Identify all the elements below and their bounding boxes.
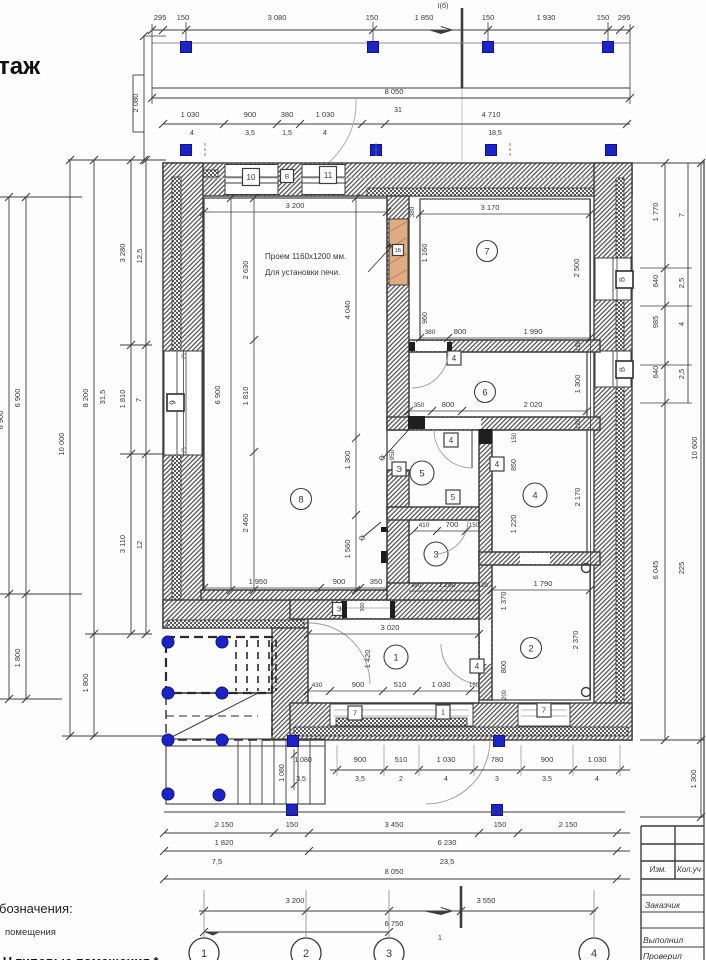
svg-text:3,5: 3,5 [542,776,552,783]
svg-text:2 150: 2 150 [559,820,578,829]
svg-text:10: 10 [247,173,256,182]
svg-text:1 810: 1 810 [241,387,250,406]
svg-text:410: 410 [419,522,430,529]
svg-text:1 990: 1 990 [524,327,543,336]
svg-text:3 550: 3 550 [477,896,496,905]
svg-text:В: В [618,367,627,372]
svg-text:3: 3 [386,948,392,960]
svg-text:1 560: 1 560 [343,540,352,559]
svg-text:150: 150 [366,13,379,22]
svg-text:1 030: 1 030 [432,680,451,689]
svg-text:31,5: 31,5 [98,390,107,405]
svg-text:4: 4 [532,490,537,501]
svg-text:850: 850 [511,459,518,471]
svg-text:7: 7 [542,706,546,715]
svg-text:150: 150 [482,13,495,22]
svg-text:7,5: 7,5 [212,857,222,866]
svg-text:1: 1 [201,948,207,960]
svg-text:Выполнил: Выполнил [643,935,683,945]
svg-text:1 800: 1 800 [13,649,22,668]
svg-text:510: 510 [395,755,408,764]
svg-text:1 770: 1 770 [651,203,660,222]
svg-text:1 370: 1 370 [499,592,508,611]
svg-text:9: 9 [169,400,178,405]
svg-text:4: 4 [190,130,194,137]
svg-text:1 030: 1 030 [437,755,456,764]
svg-text:1 820: 1 820 [215,838,234,847]
svg-text:В: В [285,173,289,180]
svg-text:2 630: 2 630 [241,261,250,280]
svg-text:3,5: 3,5 [355,776,365,783]
svg-text:18,5: 18,5 [488,130,502,137]
svg-text:5: 5 [419,468,424,479]
svg-text:150: 150 [177,13,190,22]
svg-text:4: 4 [444,776,448,783]
svg-text:6: 6 [482,387,487,398]
svg-text:бозначения:: бозначения: [0,901,73,916]
svg-text:1 300: 1 300 [573,375,582,394]
svg-text:2 150: 2 150 [215,820,234,829]
svg-text:1 810: 1 810 [118,390,127,409]
svg-text:1 080: 1 080 [279,764,286,782]
svg-text:4 040: 4 040 [343,301,352,320]
svg-text:6 045: 6 045 [651,561,660,580]
svg-text:150: 150 [469,683,480,689]
svg-text:1 030: 1 030 [316,110,335,119]
svg-text:12: 12 [135,541,144,549]
svg-text:3,5: 3,5 [245,130,255,137]
svg-text:3: 3 [433,549,438,560]
svg-text:2 080: 2 080 [131,94,140,113]
svg-text:6 900: 6 900 [0,411,5,430]
svg-text:4: 4 [323,130,327,137]
svg-text:150: 150 [512,432,518,443]
svg-text:780: 780 [491,755,504,764]
svg-text:1 260: 1 260 [438,582,456,589]
svg-text:2,5: 2,5 [677,278,686,288]
svg-text:1 080: 1 080 [294,757,312,764]
svg-text:8 050: 8 050 [385,867,404,876]
svg-text:В: В [618,277,627,282]
svg-text:700: 700 [446,520,459,529]
svg-text:1 850: 1 850 [415,13,434,22]
svg-text:помещения: помещения [5,927,56,938]
svg-text:295: 295 [618,13,631,22]
svg-text:900: 900 [541,755,554,764]
svg-text:7: 7 [353,709,357,718]
svg-text:1 300: 1 300 [343,451,352,470]
svg-text:900: 900 [333,577,346,586]
svg-text:150: 150 [469,523,480,529]
svg-text:3,5: 3,5 [296,776,306,783]
svg-text:2,5: 2,5 [677,369,686,379]
svg-text:4: 4 [452,354,457,363]
svg-text:1 030: 1 030 [588,755,607,764]
svg-text:120: 120 [576,340,582,351]
svg-text:1: 1 [438,935,442,942]
svg-text:1Б: 1Б [395,248,402,254]
svg-text:295: 295 [154,13,167,22]
svg-text:6 900: 6 900 [13,389,22,408]
svg-text:1 930: 1 930 [537,13,556,22]
svg-text:4: 4 [677,322,686,326]
svg-text:350: 350 [414,402,425,409]
svg-text:3: 3 [495,776,499,783]
svg-text:2: 2 [303,948,309,960]
svg-text:4: 4 [449,436,454,445]
svg-text:5: 5 [451,493,456,502]
svg-text:ф: ф [359,535,365,542]
svg-text:3 450: 3 450 [385,820,404,829]
svg-text:2: 2 [528,643,533,654]
svg-text:430: 430 [312,682,323,689]
svg-text:Кол.уч: Кол.уч [677,865,701,874]
svg-text:1 420: 1 420 [363,650,372,669]
svg-text:6 750: 6 750 [385,919,404,928]
svg-text:200: 200 [502,689,508,700]
svg-text:800: 800 [442,400,455,409]
svg-text:380: 380 [425,329,436,336]
svg-text:1 220: 1 220 [509,515,518,534]
svg-text:7: 7 [134,398,143,402]
svg-text:510: 510 [394,680,407,689]
svg-text:Проем 1160х1200 мм.: Проем 1160х1200 мм. [265,252,346,261]
svg-text:11: 11 [324,171,333,180]
svg-text:960: 960 [422,312,429,324]
svg-text:8: 8 [298,494,303,505]
svg-text:Изм.: Изм. [649,865,666,874]
svg-text:6 900: 6 900 [213,386,222,405]
svg-text:225: 225 [677,562,686,575]
svg-text:3 080: 3 080 [268,13,287,22]
svg-text:380: 380 [281,110,294,119]
svg-text:Для установки печи.: Для установки печи. [265,268,340,277]
svg-text:150: 150 [286,820,299,829]
svg-text:3 200: 3 200 [286,201,305,210]
svg-text:4: 4 [595,776,599,783]
svg-text:985: 985 [651,316,660,329]
svg-text:таж: таж [0,53,41,80]
svg-text:10 600: 10 600 [690,437,699,460]
svg-text:1 950: 1 950 [249,577,268,586]
svg-text:150: 150 [597,13,610,22]
svg-text:1 800: 1 800 [81,674,90,693]
svg-text:2 170: 2 170 [573,488,582,507]
svg-text:7: 7 [677,213,686,217]
svg-text:Э: Э [336,607,341,614]
svg-text:900: 900 [354,755,367,764]
svg-text:1 300: 1 300 [689,770,698,789]
svg-text:12,5: 12,5 [135,249,144,264]
svg-text:7: 7 [484,246,489,257]
svg-text:4: 4 [591,948,597,960]
svg-text:4: 4 [495,460,500,469]
svg-text:640: 640 [651,275,660,288]
svg-text:31: 31 [394,107,402,114]
svg-text:1 790: 1 790 [534,579,553,588]
svg-text:350: 350 [370,577,383,586]
svg-text:3 110: 3 110 [118,535,127,553]
svg-text:8 200: 8 200 [81,389,90,408]
svg-text:800: 800 [454,327,467,336]
svg-text:ф: ф [379,455,385,462]
svg-text:900: 900 [352,680,365,689]
svg-text:3 020: 3 020 [381,623,400,632]
svg-text:150: 150 [494,820,507,829]
svg-text:300: 300 [360,602,366,611]
svg-text:2: 2 [399,776,403,783]
svg-text:3 280: 3 280 [118,244,127,263]
svg-text:8 050: 8 050 [385,87,404,96]
svg-text:120: 120 [576,418,582,429]
svg-text:6 230: 6 230 [438,838,457,847]
svg-text:3 170: 3 170 [481,203,500,212]
svg-text:380: 380 [409,206,416,217]
svg-text:2 020: 2 020 [524,400,543,409]
svg-text:2 460: 2 460 [241,514,250,533]
svg-text:23,5: 23,5 [440,857,455,866]
svg-text:Ч типовые помещения *: Ч типовые помещения * [3,954,160,960]
svg-text:1 030: 1 030 [181,110,200,119]
svg-text:Э: Э [396,465,402,474]
svg-text:3 200: 3 200 [286,896,305,905]
svg-text:Проверил: Проверил [643,951,682,960]
svg-text:120: 120 [478,583,489,589]
svg-text:1 160: 1 160 [420,244,429,263]
svg-text:2 500: 2 500 [572,259,581,278]
svg-text:380: 380 [411,583,422,589]
svg-text:I(б): I(б) [438,2,449,10]
svg-text:4 710: 4 710 [482,110,501,119]
svg-text:1: 1 [441,708,445,717]
svg-text:800: 800 [499,661,508,674]
svg-text:900: 900 [244,110,257,119]
svg-text:4: 4 [475,662,480,671]
svg-text:1,5: 1,5 [282,130,292,137]
svg-text:Заказчик: Заказчик [645,900,681,910]
svg-text:10 000: 10 000 [57,433,66,456]
svg-text:950: 950 [389,449,396,460]
svg-text:2 370: 2 370 [571,631,580,650]
svg-text:1: 1 [393,652,398,663]
svg-text:640: 640 [651,366,660,379]
